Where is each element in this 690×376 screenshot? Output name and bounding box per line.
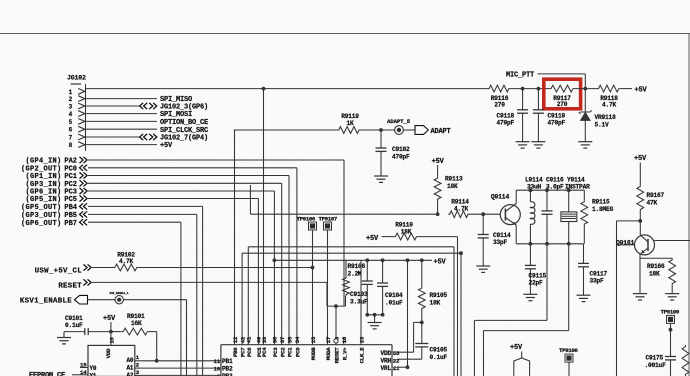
wire PC2 (GP3_IN) — [25, 180, 281, 189]
wire PC3 (GP6_IN) — [25, 188, 274, 197]
wire R9101 pulldown drop — [155, 332, 159, 363]
node rail R9105 — [420, 258, 424, 262]
capacitor C9101 0.1uF — [64, 315, 111, 335]
wire KSV1 drop — [123, 300, 186, 376]
wire OPTION_BO_CE — [86, 119, 209, 127]
ground Q9161 emitter — [633, 294, 647, 300]
node R9117 output junction — [575, 87, 598, 91]
node R9113/R9114 junction — [436, 212, 440, 216]
wire VRH feed — [398, 358, 422, 360]
ground C9117 — [577, 295, 591, 301]
resistor R9119 1K — [337, 113, 360, 134]
pin 11 PB1 of MCU — [213, 358, 233, 365]
node EEPROM VDD junction — [109, 330, 113, 334]
wire PC3 riser — [273, 191, 275, 337]
resistor R9116 270 — [488, 85, 511, 108]
wire oscillator bottom rail — [516, 243, 583, 245]
pin 3 A2 of EEPROM — [126, 369, 141, 376]
capacitor C9175 .001uF — [645, 355, 677, 376]
jumper KSV_ENABLE_A — [110, 292, 129, 304]
crystal Y9114 INSTPAR — [561, 176, 590, 243]
node top rail L9114 — [529, 188, 533, 192]
wire PB0 riser from SPI_CLCK_SRC — [234, 130, 338, 337]
wire R9106 bottom to RESET pin — [327, 296, 346, 306]
pin 18 R_V+ of MCU — [341, 336, 348, 360]
wire sheet right border — [688, 34, 690, 376]
capacitor C9117 33pF — [578, 244, 608, 295]
wire RESET net — [58, 279, 327, 306]
power +5V rail label — [434, 258, 447, 266]
wire PA2 riser to R_V+ pin — [343, 160, 345, 306]
wire +5V rail above MCU — [274, 259, 432, 261]
node Q9114 base junction — [481, 212, 485, 216]
resistor R9117 270 (highlighted) — [550, 85, 575, 108]
pin 38 PC3 of MCU — [272, 336, 279, 357]
wire A1 to PB2 — [141, 367, 221, 369]
resistor R9175 right edge — [682, 345, 689, 376]
pin 41 PC6 of MCU — [246, 336, 253, 357]
wire R9116 to R9117 — [510, 88, 549, 90]
wire SPI_CLCK_SRC — [86, 127, 209, 135]
wire oscillator output drop — [617, 221, 641, 376]
wire JG102_7 (GP4) — [86, 134, 209, 143]
resistor R9114 4.7K — [448, 198, 500, 217]
node top rail C9116 — [545, 188, 549, 192]
wire PC4 riser (MIC_PTT tap) — [263, 89, 265, 337]
wire Q9161 collector — [639, 221, 641, 235]
wire PC1 (GP1_IN) — [25, 172, 289, 181]
resistor R9110 18K — [382, 222, 418, 240]
pin 55 VDD of MCU — [380, 350, 400, 357]
node Q9161 collector junction — [638, 219, 642, 223]
pin 2 A1 of EEPROM — [126, 362, 141, 372]
ground VR9118 — [578, 142, 592, 148]
wire hook to lower pins 1 — [460, 253, 462, 376]
capacitor C9118 470pF — [497, 89, 529, 142]
wire USW to TP9106 riser — [138, 266, 314, 270]
resistor R9113 18K — [434, 176, 463, 215]
wire PC6 feed hook — [248, 247, 454, 376]
pin 16 VDD of EEPROM — [105, 336, 115, 358]
capacitor C9102 470pF — [376, 130, 411, 176]
wire ADAPT arrow — [403, 126, 450, 136]
power +5V at EEPROM — [103, 315, 116, 346]
inductor L9114 33uH — [525, 176, 543, 243]
pin 39 PC4 of MCU — [261, 336, 268, 357]
capacitor C9114 33pF — [478, 214, 511, 266]
wire PC0 (GP2_OUT) — [21, 165, 297, 174]
wire MIC_PTT label tap — [506, 72, 585, 89]
node C9175 junction — [669, 328, 673, 332]
wire Q9161 output right — [654, 240, 690, 242]
wire PB7 (GP6_OUT) — [21, 219, 181, 228]
resistor R9105 18K — [418, 260, 447, 322]
op-amp U9100 MCU box — [221, 345, 392, 376]
wire SPI_MOSI — [86, 111, 193, 119]
testpoint TP9106 — [297, 215, 317, 337]
capacitor C9105 0.1uF — [415, 322, 447, 361]
node rail C9103 — [365, 258, 369, 262]
wire Q9161 emitter — [639, 254, 641, 294]
ground C9115 — [523, 294, 537, 300]
wire PB5 drop — [196, 214, 198, 376]
pin 15 Y0 of EEPROM — [80, 361, 97, 372]
node rail PC3 riser — [273, 258, 277, 262]
wire oscillator base net to Q9114 — [250, 185, 437, 214]
wire PB4 drop — [202, 206, 204, 376]
pin 23 CLK_E of MCU — [358, 336, 365, 363]
pin 43 RESET of MCU — [333, 336, 340, 363]
pin 21 VRL of MCU — [380, 365, 400, 372]
resistor R9166 18K — [640, 258, 676, 293]
node C9118 junction — [521, 87, 525, 91]
wire R9119 to ADAPT — [361, 129, 395, 131]
wire Q9114 emitter drop — [515, 225, 517, 244]
connector JG102 — [67, 75, 86, 152]
power +5V at R9118 — [620, 87, 647, 95]
power +5V at R9110 — [366, 235, 379, 243]
node C9102 junction — [379, 128, 383, 132]
wire JG102_3 (GP6) — [86, 103, 209, 112]
transistor Q9114 — [491, 194, 520, 226]
wire PC1 riser — [288, 176, 290, 338]
transistor Q9105 (bottom symbol) — [514, 358, 530, 376]
ground C9103/C9104 — [368, 323, 382, 329]
testpoint TP9107 — [319, 215, 338, 337]
node bottom rail L9114 — [529, 242, 533, 246]
pin 1 A0 of EEPROM — [126, 354, 141, 364]
capacitor C9104 .01uF — [377, 260, 403, 315]
power +5V at R9113 — [432, 158, 445, 177]
resistor R9115 1.8MEG — [581, 190, 614, 244]
node RESET junction — [334, 304, 338, 339]
capacitor C9116 3.6pF — [542, 176, 565, 243]
pin 35 PC1 of MCU — [286, 336, 293, 357]
wire A2 to PB3 — [141, 374, 221, 376]
wire A0 to PB1 — [141, 360, 221, 362]
ground R9166 — [665, 294, 679, 300]
resistor R9106 2.2K (RESET pullup) — [343, 260, 366, 296]
op-amp U9101 EEPROM box — [88, 345, 135, 376]
node C9119 junction — [537, 87, 541, 91]
wire PC7 feed with jog — [242, 253, 461, 337]
node top rail Y9114 — [567, 188, 571, 192]
pin 25 MODB of MCU — [310, 336, 317, 360]
node R9105/C9105/VDD junction — [420, 321, 424, 325]
wire oscillator top rail — [516, 189, 584, 191]
resistor R9118 4.7K — [597, 85, 620, 108]
wire SPI_MISO — [86, 96, 193, 104]
node jog-hook junction — [459, 251, 463, 255]
testpoint TP9108 — [559, 347, 578, 376]
node rail C9104 — [381, 258, 385, 262]
ground C9119 — [531, 142, 545, 148]
wire PC5 (GP5_IN) — [25, 195, 258, 204]
ground C9102 — [374, 176, 388, 182]
wire CLK_E riser — [360, 260, 362, 337]
wire EEPROM_CE label — [29, 372, 80, 376]
wire PB7 drop — [180, 222, 182, 376]
pin 9 PB3 of MCU — [217, 373, 233, 376]
pin 37 PC2 of MCU — [279, 337, 286, 357]
ground C9101 — [57, 332, 71, 344]
wire USW_+5V_CL net — [35, 264, 114, 275]
resistor R9101 16K — [111, 313, 157, 335]
node rail VRL riser — [406, 258, 410, 262]
node bottom rail Y9114 — [567, 242, 571, 246]
wire VDD feed bracket — [398, 322, 422, 352]
wire KSV1_ENABLE net — [20, 295, 115, 305]
capacitor C9119 470pF — [533, 89, 566, 142]
wire MIC_PTT net from JG102 pin 1 — [86, 88, 488, 90]
zener diode VR9118 5.1V — [579, 89, 616, 142]
wire PC2 riser — [281, 183, 283, 337]
power +5V at JG102 pin 8 — [86, 142, 174, 150]
pin 10 PB2 of MCU — [213, 366, 233, 373]
pin 34 PC0 of MCU — [294, 336, 301, 357]
wire PA2 (GP4_IN) — [25, 157, 344, 166]
wire PC0 riser — [296, 168, 298, 337]
wire PB5 (GP3_OUT) — [21, 211, 197, 220]
wire VRL feed riser — [398, 260, 410, 369]
transistor Q9161 — [616, 235, 655, 255]
resistor R9167 47K — [637, 185, 665, 221]
ground C9118 — [516, 142, 530, 148]
resistor R9102 4.7K — [113, 251, 138, 271]
node junction pin1/PC4 riser — [262, 87, 266, 91]
pin 14 Y1 of EEPROM — [80, 369, 97, 376]
power +5V at varicap — [510, 344, 523, 358]
wire PB4 (GP5_OUT) — [21, 203, 203, 212]
pin 43 RESET bubble — [334, 339, 338, 343]
wire R9110 output hook — [418, 237, 458, 376]
wire sheet top border — [0, 33, 690, 35]
pin 22 VRH of MCU — [380, 357, 400, 364]
capacitor C9115 22pF — [525, 244, 547, 294]
wire PC5 riser — [257, 199, 259, 338]
testpoint TP9109 — [661, 308, 680, 356]
highlight red box around R9117 — [544, 79, 581, 109]
wire Q9114 collector riser — [515, 190, 517, 203]
capacitor C9103 3.3uF polarized — [350, 260, 373, 315]
pin 27 MODA of MCU — [325, 337, 332, 360]
wire OSC2 hook to MCU — [484, 244, 569, 376]
ground C9114 — [476, 266, 490, 272]
wire OSC1 hook to MCU — [474, 244, 547, 376]
wire C9103/C9104 ground tie — [365, 313, 384, 323]
node bottom rail C9116 — [545, 242, 549, 246]
pin 12 PB0 of MCU — [232, 336, 239, 357]
power +5V at R9167 — [634, 155, 647, 185]
pin 42 PC7 of MCU — [239, 336, 246, 357]
jumper ADAPT_5 — [387, 118, 411, 135]
pin 40 PC5 of MCU — [256, 336, 263, 357]
